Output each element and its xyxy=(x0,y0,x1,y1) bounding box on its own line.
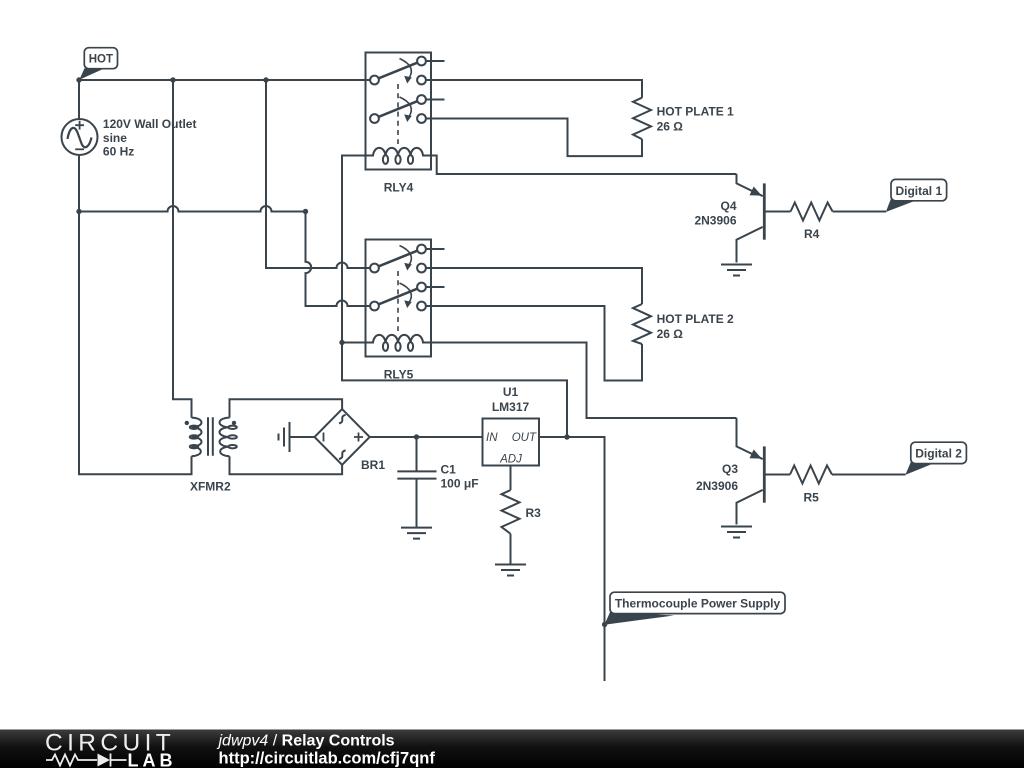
wire HOT PLATE 2 bottom back to RLY5 sw2 lower throw xyxy=(426,306,642,381)
resistor R4 xyxy=(791,203,833,221)
svg-text:IN: IN xyxy=(486,432,498,444)
capacitor C1 plates xyxy=(397,471,436,478)
transistor Q3 emitter arrow xyxy=(750,450,762,459)
junction node LM317 OUT xyxy=(564,434,569,439)
svg-text:C1: C1 xyxy=(441,462,457,476)
voltage source minus sign xyxy=(75,148,84,150)
svg-text:26 Ω: 26 Ω xyxy=(657,119,684,133)
flag Digital 1 box xyxy=(891,179,947,200)
relay RLY5 switch 1 upper throw contact xyxy=(417,245,426,254)
svg-text:R3: R3 xyxy=(526,506,542,520)
relay RLY5 coil xyxy=(366,335,432,343)
transistor Q4 emitter lead xyxy=(737,174,763,196)
svg-text:2N3906: 2N3906 xyxy=(694,214,736,228)
wire RLY5 coil left lead xyxy=(342,342,366,344)
wire RLY4 coil left route down to LM317 OUT node xyxy=(342,156,567,438)
CircuitLab logo resistor-diode glyph xyxy=(46,754,127,767)
relay RLY4 coil xyxy=(366,148,432,156)
relay RLY4 switch 1 upper throw stub xyxy=(426,60,445,62)
relay RLY4 switch 1 upper throw contact xyxy=(417,57,426,66)
BR1 plus marking xyxy=(354,433,363,442)
relay RLY5 mechanical link dashed xyxy=(397,271,399,331)
BR1 bottom ac tilde xyxy=(339,450,346,459)
footer bar xyxy=(0,730,1024,768)
wire RLY4 coil right lead to Q4 emitter xyxy=(431,156,737,175)
svg-text:jdwpv4 / Relay Controls: jdwpv4 / Relay Controls xyxy=(217,732,395,749)
relay RLY5 switch 2 upper throw contact xyxy=(417,283,426,292)
relay RLY5 box xyxy=(366,240,432,357)
wire transformer secondary bottom to BR1 xyxy=(230,456,343,474)
relay RLY5 switch 2 blade xyxy=(379,289,418,305)
ground at Q3 collector xyxy=(721,527,752,538)
ground below C1 xyxy=(401,528,432,539)
relay RLY5 switch 1 common contact xyxy=(370,264,379,273)
wire LM317 OUT to thermocouple supply line xyxy=(539,437,605,681)
svg-text:HOT: HOT xyxy=(89,54,113,66)
svg-text:26 Ω: 26 Ω xyxy=(657,327,684,341)
resistor R3 xyxy=(502,490,520,534)
relay RLY4 switch 1 blade xyxy=(379,63,418,79)
junction node neutral x305.5 xyxy=(303,209,308,214)
voltage source V1 circle xyxy=(62,119,98,155)
svg-text:Q3: Q3 xyxy=(722,462,738,476)
relay RLY5 switch 2 upper throw stub xyxy=(426,286,445,288)
svg-text:HOT PLATE 1: HOT PLATE 1 xyxy=(657,105,734,119)
transformer XFMR2 secondary coil xyxy=(219,418,229,457)
voltage source plus sign xyxy=(75,121,84,130)
resistor HOT PLATE 1 xyxy=(633,98,651,139)
svg-text:60 Hz: 60 Hz xyxy=(103,145,134,159)
transformer XFMR2 secondary phase dot xyxy=(232,421,236,425)
wire BR1 minus to earth ground xyxy=(290,436,315,438)
svg-text:R4: R4 xyxy=(804,227,820,241)
svg-text:Q4: Q4 xyxy=(720,199,736,213)
svg-text:Digital 1: Digital 1 xyxy=(895,184,942,198)
flag HOT pointer xyxy=(79,68,102,79)
wire R4 to Digital 1 flag xyxy=(833,211,886,213)
relay RLY4 switch 1 lower throw contact xyxy=(417,76,426,85)
svg-text:Digital 2: Digital 2 xyxy=(915,447,962,461)
relay RLY4 switch 2 blade xyxy=(379,101,418,117)
wire C1 top lead xyxy=(416,437,418,471)
wire R5 to Digital 2 flag xyxy=(832,474,906,476)
flag Digital 2 pointer xyxy=(905,462,934,475)
transistor Q3 base bar xyxy=(763,446,766,502)
BR1 minus marking xyxy=(323,433,325,442)
voltage source sine wave xyxy=(68,128,92,147)
svg-text:120V Wall Outlet: 120V Wall Outlet xyxy=(103,117,197,131)
relay RLY4 switch 1 common contact xyxy=(370,76,379,85)
wire neutral rail y211.5 with hops over x173 and x266 xyxy=(79,206,306,211)
wire RLY5 sw1 lower throw to HOT PLATE 2 top xyxy=(426,268,642,304)
svg-text:2N3906: 2N3906 xyxy=(696,479,738,493)
svg-text:http://circuitlab.com/cfj7qnf: http://circuitlab.com/cfj7qnf xyxy=(219,749,436,767)
relay RLY5 switch 1 upper throw stub xyxy=(426,248,445,250)
svg-text:LM317: LM317 xyxy=(492,400,530,414)
wire transformer secondary top to BR1 xyxy=(230,399,343,417)
flag Thermocouple pointer xyxy=(604,612,674,625)
junction node relay coil common x342 xyxy=(339,340,344,345)
transistor Q4 base bar xyxy=(763,183,766,239)
flag Digital 2 box xyxy=(911,442,967,463)
ground below R3 xyxy=(495,565,526,576)
transistor Q4 base lead xyxy=(765,211,791,213)
wire HOT PLATE 1 bottom back to RLY4 sw2 lower throw xyxy=(426,119,642,157)
svg-text:OUT: OUT xyxy=(512,432,537,444)
wire R3 bottom to ground xyxy=(510,534,512,565)
transformer XFMR2 primary phase dot xyxy=(185,421,189,425)
transistor Q4 emitter arrow xyxy=(750,187,762,196)
svg-text:Thermocouple Power Supply: Thermocouple Power Supply xyxy=(615,596,781,610)
relay RLY4 box xyxy=(366,53,432,170)
junction node x173 top rail xyxy=(170,77,175,82)
transistor Q3 emitter lead xyxy=(737,418,763,459)
transistor Q3 collector lead xyxy=(737,490,763,525)
resistor HOT PLATE 2 xyxy=(633,304,651,344)
relay RLY4 switch 2 upper throw contact xyxy=(417,95,426,104)
svg-text:BR1: BR1 xyxy=(361,458,385,472)
relay RLY5 switch 1 lower throw contact xyxy=(417,264,426,273)
transformer XFMR2 primary coil xyxy=(192,418,202,457)
svg-text:ADJ: ADJ xyxy=(499,453,522,465)
wire RLY5 coil right lead to Q3 emitter xyxy=(431,343,737,419)
svg-text:LAB: LAB xyxy=(128,750,177,768)
wire source top lead xyxy=(78,80,80,119)
junction node x266 top rail xyxy=(263,77,268,82)
junction node neutral left xyxy=(76,209,81,214)
wire source bottom lead down left side to transformer primary bottom xyxy=(79,155,192,474)
wire HOT top rail xyxy=(79,79,370,81)
relay RLY4 switch 1 travel arrow xyxy=(400,59,412,79)
relay RLY5 switch 2 lower throw contact xyxy=(417,302,426,311)
earth ground at BR1 minus xyxy=(279,422,290,452)
wire LM317 ADJ to R3 xyxy=(510,466,512,491)
svg-text:XFMR2: XFMR2 xyxy=(190,479,231,493)
svg-text:RLY4: RLY4 xyxy=(384,180,414,194)
svg-text:U1: U1 xyxy=(503,385,519,399)
transistor Q4 collector lead xyxy=(737,227,763,263)
svg-text:RLY5: RLY5 xyxy=(384,367,414,381)
wire RLY4 sw1 lower throw to HOT PLATE 1 top xyxy=(426,80,642,98)
wire vertical x173 from top rail to transformer primary xyxy=(173,80,192,418)
relay RLY5 switch 1 blade xyxy=(379,251,418,267)
wire x305.5 vertical with hop over y268 then to RLY5 sw2 common with hop over x342 xyxy=(306,212,371,307)
wire C1 bottom lead xyxy=(416,479,418,527)
relay RLY4 switch 2 lower throw contact xyxy=(417,114,426,123)
resistor R5 xyxy=(790,466,832,484)
ground at Q4 collector xyxy=(721,265,752,276)
svg-text:HOT PLATE 2: HOT PLATE 2 xyxy=(657,312,734,326)
svg-text:sine: sine xyxy=(103,131,127,145)
relay RLY4 mechanical link dashed xyxy=(397,84,399,144)
flag Thermocouple Power Supply box xyxy=(610,592,785,613)
junction node thermocouple tap xyxy=(602,622,607,627)
svg-text:100 μF: 100 μF xyxy=(441,476,479,490)
wire vertical x266 to RLY5 sw1 common with hop over x342 xyxy=(266,80,370,268)
relay RLY4 switch 2 travel arrow xyxy=(400,97,412,117)
junction node C1 top xyxy=(414,434,419,439)
flag HOT box xyxy=(84,48,117,69)
relay RLY4 switch 2 common contact xyxy=(370,114,379,123)
transistor Q3 base lead xyxy=(765,474,790,476)
bridge rectifier BR1 diamond xyxy=(315,409,370,465)
transformer XFMR2 core lines xyxy=(208,417,213,456)
relay RLY5 switch 1 travel arrow xyxy=(400,246,412,266)
LM317 U1 box xyxy=(483,419,540,466)
junction node at HOT xyxy=(76,77,81,82)
wire BR1 plus output rail to LM317 IN xyxy=(370,436,483,438)
relay RLY4 switch 2 upper throw stub xyxy=(426,99,445,101)
BR1 top ac tilde xyxy=(339,415,346,424)
relay RLY5 switch 2 travel arrow xyxy=(400,283,412,303)
svg-text:R5: R5 xyxy=(804,491,820,505)
flag Digital 1 pointer xyxy=(886,199,915,212)
relay RLY5 switch 2 common contact xyxy=(370,302,379,311)
